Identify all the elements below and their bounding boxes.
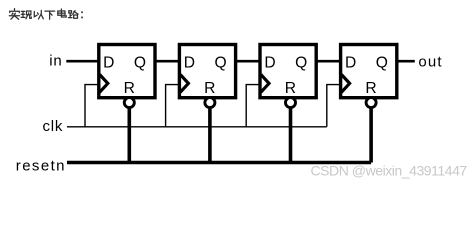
svg-text:D: D bbox=[345, 54, 356, 71]
svg-text:out: out bbox=[418, 53, 442, 70]
svg-text:R: R bbox=[124, 80, 135, 97]
svg-text:resetn: resetn bbox=[16, 157, 66, 174]
svg-text:clk: clk bbox=[42, 118, 63, 135]
svg-text:Q: Q bbox=[376, 54, 388, 71]
svg-text:CSDN @weixin_43911447: CSDN @weixin_43911447 bbox=[311, 162, 468, 178]
svg-text:Q: Q bbox=[215, 54, 227, 71]
svg-text:R: R bbox=[365, 80, 376, 97]
svg-text:D: D bbox=[103, 54, 114, 71]
svg-text:Q: Q bbox=[295, 54, 307, 71]
svg-text:R: R bbox=[204, 80, 215, 97]
svg-text:Q: Q bbox=[134, 54, 146, 71]
svg-text:R: R bbox=[285, 80, 296, 97]
svg-text:D: D bbox=[184, 54, 195, 71]
svg-text:in: in bbox=[49, 52, 62, 69]
svg-text:D: D bbox=[264, 54, 275, 71]
